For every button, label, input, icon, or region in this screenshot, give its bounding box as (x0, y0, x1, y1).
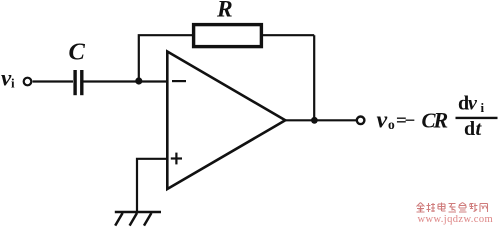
pin plus (171, 153, 182, 165)
label dt denominator (464, 118, 483, 140)
svg-text:i: i (481, 100, 485, 115)
fraction bar (456, 117, 498, 119)
svg-text:R: R (433, 107, 449, 132)
svg-text:v: v (468, 93, 478, 115)
svg-text:−: − (405, 111, 416, 132)
wire (137, 159, 166, 212)
svg-text:C: C (69, 39, 86, 66)
svg-text:R: R (216, 0, 233, 23)
resistor R (194, 25, 262, 47)
watermark chinese (417, 203, 488, 213)
ground (115, 212, 161, 226)
wire (285, 119, 356, 121)
label vi (1, 66, 15, 91)
svg-text:v: v (377, 107, 388, 133)
svg-text:t: t (476, 118, 483, 140)
wire (263, 34, 314, 36)
label dvi numerator (458, 93, 485, 116)
pin minus (172, 80, 186, 82)
output terminal vo (357, 117, 365, 125)
wire (33, 80, 73, 82)
capacitor C (73, 70, 83, 95)
node B (311, 117, 318, 124)
input terminal vi (24, 78, 32, 86)
wire (139, 35, 193, 81)
svg-text:o: o (388, 117, 395, 132)
wire (313, 35, 315, 120)
svg-text:d: d (464, 118, 475, 140)
wire (84, 80, 167, 82)
op-amp U1 (167, 52, 285, 190)
label vo output equation (377, 107, 449, 133)
svg-text:i: i (11, 76, 15, 91)
node A (135, 77, 142, 84)
svg-text:www.jqdzw.com: www.jqdzw.com (418, 214, 494, 225)
